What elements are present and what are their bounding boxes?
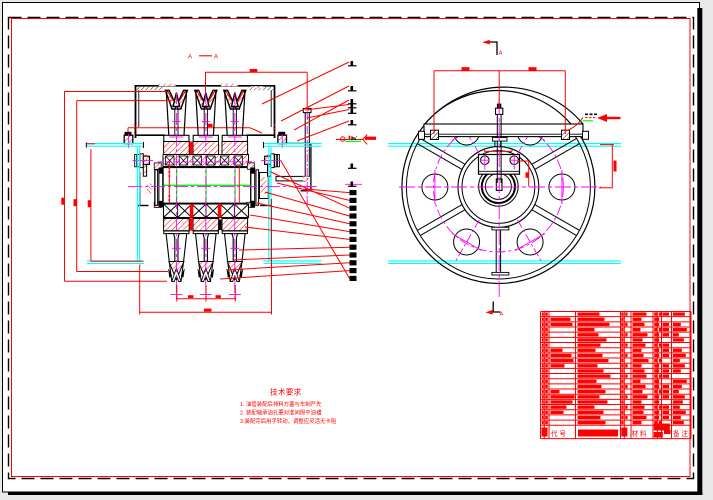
part label block 7 bbox=[350, 237, 357, 242]
sheave 2 lower edge L bbox=[199, 262, 202, 282]
plate bolt right bbox=[562, 130, 570, 139]
lower bearing row bbox=[164, 204, 249, 218]
right end seal top bbox=[251, 168, 255, 174]
svg-text:1. 油管装配后排料方塞与车制严先: 1. 油管装配后排料方塞与车制严先 bbox=[240, 400, 322, 408]
oil pipe elbow hatch bbox=[303, 176, 309, 181]
wheel bolt holes bbox=[422, 119, 575, 255]
part label block 5 bbox=[350, 221, 357, 226]
bolt mid-right head bbox=[265, 156, 271, 164]
wheel top dim text R bbox=[529, 67, 537, 70]
bolt mid-left stem bbox=[143, 164, 146, 176]
lower hub block 2 bbox=[193, 219, 219, 231]
sheave 3 lower tick bbox=[230, 247, 239, 249]
bottom dim 2 ext left bbox=[139, 265, 141, 315]
lower hub red bar bbox=[189, 219, 193, 231]
sheave 1 lower foot bbox=[164, 231, 189, 234]
right support wall foot bbox=[260, 205, 271, 207]
sheave 2 arm red streak R bbox=[209, 91, 215, 101]
bracket red top line bbox=[485, 150, 513, 152]
bottom beam cyan flange bbox=[87, 260, 144, 262]
casing wall red hatch R bbox=[274, 124, 276, 135]
leader line lower 5 bbox=[257, 203, 350, 224]
left bearing cover hatch bot bbox=[154, 202, 162, 207]
left dim line 1 bottom leader bbox=[65, 280, 168, 282]
svg-text:3.装配完后用手转动，调整应灵活无卡阻: 3.装配完后用手转动，调整应灵活无卡阻 bbox=[240, 417, 337, 425]
oil pipe vertical bbox=[305, 113, 309, 177]
sheave 2 lower tick bbox=[201, 247, 210, 249]
part label block 1 bbox=[350, 190, 357, 195]
pipe support foot bbox=[301, 190, 312, 192]
bottom dim 1 text a bbox=[188, 295, 193, 298]
section arrow red bbox=[487, 311, 492, 314]
leader line upper 5 bbox=[307, 110, 349, 119]
svg-text:材 料: 材 料 bbox=[632, 429, 647, 438]
top beam cyan flange bbox=[86, 143, 144, 145]
part label block 3 bbox=[350, 206, 357, 211]
bolt mid-left head bbox=[143, 156, 149, 164]
marker tail bbox=[606, 117, 621, 119]
sheave 2 upper groove left arm bbox=[195, 90, 205, 109]
leader line upper 1 bbox=[262, 62, 349, 104]
part label block 11 bbox=[350, 268, 357, 273]
bracket bolt left bbox=[481, 156, 490, 165]
sheave 1 lower edge L bbox=[169, 262, 172, 282]
shaft circle outer bbox=[479, 167, 519, 207]
sheave 2 web left bbox=[203, 109, 205, 136]
wheel horizontal centerline bbox=[399, 186, 601, 188]
sheave 1 body right side bbox=[184, 92, 187, 135]
drum red line right bbox=[238, 165, 240, 204]
part label block 10 bbox=[350, 260, 357, 265]
sheave 3 lower edge R bbox=[239, 262, 242, 282]
left support wall b bbox=[154, 170, 156, 206]
bracket box bbox=[479, 155, 520, 175]
leader line lower 8 bbox=[239, 247, 350, 250]
upper bearing X boxes bbox=[166, 156, 243, 165]
mount plate foot left bbox=[419, 131, 425, 139]
weld symbol open arrow bbox=[363, 135, 367, 140]
sheave 3 lower edge L bbox=[228, 262, 231, 282]
left end seal bottom bbox=[159, 201, 163, 207]
top beam cyan flange bbox=[388, 143, 621, 145]
drum green axis bbox=[164, 184, 251, 186]
wheel vertical centerline bbox=[498, 99, 500, 298]
bottom dim 2 line bbox=[140, 311, 272, 313]
lower bearing red bar 2 bbox=[218, 204, 222, 218]
part label block 6 bbox=[350, 229, 357, 234]
left support wall foot bbox=[138, 205, 149, 207]
bottom dim 2 ext right bbox=[271, 199, 273, 315]
wheel top dim ext mid bbox=[498, 71, 500, 107]
sheave 3 upper groove right arm bbox=[236, 90, 246, 109]
upper hub block 2 bbox=[193, 142, 219, 155]
stem head bbox=[496, 108, 503, 114]
bottom beam cyan flange bbox=[264, 260, 322, 262]
bolt mid-left washer bbox=[140, 154, 143, 168]
weld symbol line bbox=[336, 139, 363, 141]
sheave 3 web left bbox=[232, 109, 234, 136]
svg-text:代 号: 代 号 bbox=[551, 429, 566, 438]
bolt mid-right red top bbox=[267, 155, 271, 157]
casing right wall inner bbox=[270, 87, 272, 127]
bolt circle magenta bbox=[433, 122, 563, 252]
sheave 3 foot bbox=[222, 135, 247, 141]
sheave 2 lower notch bbox=[201, 268, 210, 282]
bolt mid-left red top bbox=[143, 155, 147, 157]
hood white cover bbox=[419, 81, 589, 124]
stem top cap bbox=[497, 104, 501, 108]
casing top hatch bbox=[248, 87, 273, 90]
svg-text:技术要求: 技术要求 bbox=[270, 387, 302, 397]
wheel spoke top stub bbox=[494, 140, 496, 148]
sheave 3 arm tip black L bbox=[224, 90, 226, 93]
sheave 3 lower prong left bbox=[225, 234, 234, 262]
bolt upper-left magenta tick bbox=[127, 134, 129, 148]
sheave 1 web right bbox=[177, 109, 179, 136]
drum body bbox=[163, 167, 251, 203]
drum red zigzag left bbox=[168, 162, 170, 207]
sheave 1 tick y137 bbox=[169, 136, 183, 138]
part label block 9 bbox=[350, 252, 357, 257]
part label tag 2 bbox=[351, 86, 354, 91]
leader line upper 2 bbox=[281, 86, 349, 121]
casing top hatch bbox=[137, 87, 163, 90]
right bearing cover hatch bot bbox=[247, 202, 255, 207]
upper bearing centerline bbox=[158, 161, 255, 163]
marker leader bbox=[565, 118, 583, 132]
left dim line 3 top tick bbox=[87, 143, 96, 145]
casing right wall bbox=[274, 86, 276, 139]
right dim vertical bbox=[611, 145, 613, 189]
beam end tick left2 bbox=[85, 143, 87, 148]
dim A top line bbox=[205, 71, 307, 73]
sheave 1 arm tip black R bbox=[185, 90, 187, 93]
sheave 3 upper groove left arm bbox=[224, 90, 234, 109]
page drop shadow bottom bbox=[8, 492, 703, 495]
left dim line 1 top leader bbox=[65, 91, 168, 93]
oil pipe elbow bbox=[276, 176, 305, 181]
marker green line bbox=[583, 120, 593, 122]
wheel top dim text L bbox=[462, 67, 470, 70]
right end cap outer bbox=[260, 173, 269, 199]
sheave 1 arm red streak R bbox=[179, 91, 185, 101]
left bearing cover hatch top bbox=[154, 163, 161, 169]
sheave 1 lower notch bbox=[172, 268, 181, 282]
shaft circle heavy bbox=[482, 170, 515, 203]
leader line lower 2 bbox=[277, 183, 350, 200]
part label block 2 bbox=[350, 198, 357, 203]
dim A ext left bbox=[205, 72, 207, 92]
leader line lower 1 bbox=[305, 189, 350, 193]
sheave 2 upper groove mid peak bbox=[203, 93, 210, 107]
lower bearing red bar 1 bbox=[190, 204, 194, 218]
sheave 1 arm red streak L bbox=[167, 91, 173, 101]
sheave 2 upper groove right arm bbox=[207, 90, 217, 109]
bracket dim text bbox=[526, 172, 529, 178]
red dim text in view bbox=[208, 124, 213, 127]
bolt upper-right cap bbox=[278, 132, 285, 135]
marker arrow bbox=[599, 115, 607, 121]
bolt mid-right washer bbox=[271, 154, 274, 168]
sheave 1 groove tick bbox=[172, 121, 180, 123]
bolt upper-left body bbox=[124, 135, 133, 143]
part label tag 4 bbox=[351, 103, 354, 108]
svg-text:A: A bbox=[500, 312, 504, 318]
pipe support vertical bbox=[310, 143, 312, 190]
sheave 3 lower tip black R bbox=[239, 269, 242, 278]
sheave 3 arm red streak L bbox=[226, 91, 232, 101]
sheave 3 upper groove mid peak bbox=[232, 93, 239, 107]
dim A ext right (long) bbox=[306, 72, 308, 108]
leader line lower 10 bbox=[227, 263, 350, 270]
leader line upper 4 bbox=[305, 105, 349, 111]
sheave 2 tick y295 bbox=[200, 294, 212, 296]
part label block 12 bbox=[350, 276, 357, 281]
right bearing cover hatch top bbox=[247, 163, 254, 169]
centerline pipe segment bbox=[296, 185, 317, 187]
sheave 1 vertical centerline bbox=[175, 92, 177, 299]
sheave 1 tick y295 bbox=[170, 294, 182, 296]
sheave 2 body left side bbox=[196, 92, 199, 135]
section mark top bbox=[489, 42, 497, 55]
weld symbol solid bar bbox=[365, 137, 376, 140]
sheave 1 upper groove mid peak bbox=[173, 93, 180, 107]
mount plate bbox=[424, 124, 583, 137]
weld symbol green underline bbox=[345, 140, 361, 142]
bolt upper-right body bbox=[278, 135, 287, 143]
upper hub block 3 bbox=[222, 142, 248, 155]
left dim line 2 top leader bbox=[77, 100, 171, 102]
leader line lower 9 bbox=[233, 255, 350, 260]
bottom dim 1 line bbox=[177, 298, 236, 300]
casing top red hatch c bbox=[251, 86, 263, 88]
drum red hatch left low bbox=[147, 184, 152, 194]
left dim 1 text bbox=[61, 198, 64, 205]
pipe support top bbox=[282, 142, 310, 144]
casing red leader tail bbox=[250, 128, 262, 133]
right support wall a bbox=[268, 172, 270, 206]
shaft circle inner bbox=[485, 173, 511, 199]
left dim line 2 bottom leader bbox=[77, 271, 168, 273]
sheave 1 lower prong right bbox=[178, 234, 187, 262]
sheave 1 upper groove right arm bbox=[177, 90, 187, 109]
weld symbol red tick bbox=[349, 136, 351, 140]
bolt mid-right plate 1 bbox=[277, 155, 279, 167]
main horizontal centerline bbox=[128, 185, 292, 187]
sheave 3 tick y137 bbox=[228, 136, 242, 138]
casing left wall inner bbox=[138, 87, 140, 127]
mount plate foot right bbox=[583, 131, 589, 139]
bolt upper-left cap bbox=[125, 132, 132, 135]
wheel spokes diagonal bbox=[417, 138, 579, 235]
beam end tick right bbox=[263, 142, 265, 148]
sheave 2 lower prong left bbox=[196, 234, 205, 262]
svg-text:2. 装配轴承油孔要对准间隙平油槽: 2. 装配轴承油孔要对准间隙平油槽 bbox=[240, 409, 322, 417]
wheel spoke bottom bbox=[495, 230, 497, 273]
weld symbol circle bbox=[341, 137, 345, 141]
right end red hatch bbox=[261, 177, 267, 194]
casing flange left bbox=[137, 134, 166, 136]
hole centre ticks bbox=[435, 111, 562, 263]
spoke bottom flange bot bbox=[492, 272, 509, 275]
right end seal bottom bbox=[251, 201, 255, 207]
stem washer at plate bbox=[492, 138, 507, 142]
bolt mid-right axis bbox=[261, 159, 282, 161]
BOM filled cells bbox=[542, 312, 687, 424]
bolt mid-left plate 2 bbox=[137, 155, 139, 167]
sheave 1 arm tip black L bbox=[165, 90, 167, 93]
hub inner circle bbox=[462, 151, 535, 224]
weld symbol black glyph bbox=[351, 136, 353, 140]
part label tag 8 bbox=[351, 182, 354, 187]
sheave 1 upper groove left arm bbox=[165, 90, 175, 109]
sheave 2 tick y137 bbox=[199, 136, 213, 138]
part label block 4 bbox=[350, 213, 357, 218]
bottom beam cyan flange bbox=[388, 260, 621, 262]
hub outer circle bbox=[458, 147, 539, 228]
left end ring outer bbox=[155, 170, 158, 206]
bottom dim 1 text b bbox=[216, 295, 221, 298]
svg-text:A: A bbox=[188, 54, 192, 60]
bottom dim 1 ext c bbox=[234, 285, 236, 302]
bracket dim tick bbox=[517, 160, 528, 162]
casing left wall bbox=[135, 86, 137, 139]
lower hub black bar bbox=[219, 220, 222, 231]
pipe magenta vertical bbox=[306, 112, 308, 204]
svg-text:A: A bbox=[214, 54, 218, 60]
marker black dashes bbox=[585, 113, 598, 115]
sheave 2 groove tick bbox=[202, 121, 210, 123]
drum green divider 3 bbox=[234, 168, 236, 202]
casing top red hatch a bbox=[159, 84, 176, 87]
sheave 3 lower foot bbox=[222, 231, 247, 234]
part label tag 1 bbox=[351, 61, 354, 66]
left dim 3 text bbox=[88, 200, 91, 207]
right end ring inner bbox=[251, 168, 255, 207]
sheave 1 web left bbox=[174, 109, 176, 136]
left end ring inner bbox=[159, 168, 163, 207]
BOM table grid bbox=[541, 312, 692, 439]
bottom dim 1 ext a bbox=[176, 285, 178, 302]
sheave 2 arm red streak L bbox=[197, 91, 203, 101]
bolt mid-left plate 1 bbox=[135, 155, 137, 167]
left support cyan web bbox=[136, 147, 138, 262]
sheave 3 arm tip black R bbox=[243, 90, 245, 93]
sheave 2 vertical centerline bbox=[205, 92, 207, 299]
bracket divider bbox=[479, 170, 520, 172]
svg-text:备 注: 备 注 bbox=[673, 429, 688, 438]
casing flange right bbox=[247, 134, 275, 136]
upper bearing row bbox=[163, 155, 249, 167]
sheave 3 lower tip black L bbox=[227, 269, 230, 278]
oil pipe fitting top bbox=[303, 108, 311, 112]
right dim tick top bbox=[600, 144, 614, 146]
leader line upper 3 bbox=[294, 100, 349, 130]
plate bolt left bbox=[431, 130, 439, 139]
sheave 1 lower prong left bbox=[166, 234, 175, 262]
top beam cyan flange bbox=[264, 143, 322, 145]
part label tag 5 bbox=[351, 109, 354, 114]
sheave 1 foot bbox=[164, 135, 189, 141]
sheave 2 lower tip black L bbox=[198, 269, 201, 278]
sheave 1 body left side bbox=[166, 92, 169, 135]
sheave 2 arm tip black L bbox=[195, 90, 197, 93]
bolt mid-right plate 2 bbox=[275, 155, 277, 167]
sheave 3 vertical centerline bbox=[234, 92, 236, 299]
beam end tick left bbox=[143, 142, 145, 148]
sheave 3 web right bbox=[235, 109, 237, 136]
sheave 2 lower tip black R bbox=[210, 269, 213, 278]
leader line lower 12 bbox=[281, 161, 350, 278]
right end ring outer bbox=[256, 170, 259, 206]
section arrow red top bbox=[484, 41, 489, 44]
bolt mid-right stem bbox=[268, 164, 271, 176]
left dim 2 text bbox=[74, 199, 77, 206]
wheel top dim line bbox=[434, 70, 565, 72]
sheave 1 lower tip black R bbox=[181, 269, 184, 278]
right support cyan web bbox=[268, 147, 270, 262]
left dim line 3 vertical bbox=[90, 149, 92, 261]
sheave 3 lower notch bbox=[230, 268, 239, 282]
upper hub red bar bbox=[189, 142, 193, 155]
right dim text bbox=[614, 161, 617, 172]
part label block 8 bbox=[350, 245, 357, 250]
leader line upper 6 bbox=[297, 121, 349, 141]
leader line lower 6 bbox=[250, 215, 350, 232]
bracket dim vertical bbox=[528, 161, 530, 187]
bottom dim 2 text bbox=[204, 309, 212, 312]
sheave 1 lower chevron bbox=[169, 262, 184, 280]
left dim line 1 vertical bbox=[64, 92, 66, 282]
drum green divider 1 bbox=[176, 168, 178, 202]
wheel rim inner circle bbox=[406, 95, 590, 279]
part label tag 3 bbox=[351, 99, 354, 104]
bolt mid-left axis bbox=[133, 159, 154, 161]
bolt upper-right magenta tick bbox=[281, 134, 283, 148]
leader line lower 3 bbox=[271, 172, 350, 208]
page drop shadow right bbox=[697, 8, 702, 495]
sheave 2 foot bbox=[193, 135, 218, 141]
marker red dashes bbox=[585, 117, 597, 119]
part label tag 6 bbox=[351, 120, 354, 125]
upper hub block 1 bbox=[164, 142, 190, 155]
wheel top arc bbox=[425, 90, 571, 124]
sheave 2 arm tip black R bbox=[214, 90, 216, 93]
leader line lower 11 bbox=[220, 271, 350, 279]
sheave 3 lower prong right bbox=[236, 234, 245, 262]
sheave 2 web right bbox=[206, 109, 208, 136]
lower bearing X pattern bbox=[164, 204, 249, 218]
lower hub block 1 bbox=[164, 219, 190, 231]
sheave 3 body left side bbox=[225, 92, 228, 135]
casing top plate bbox=[135, 85, 276, 87]
sheave 3 tick y295 bbox=[229, 294, 241, 296]
section mark bottom bbox=[493, 302, 500, 313]
casing top red hatch b bbox=[221, 84, 238, 87]
bottom dim 1 ext b bbox=[205, 285, 207, 302]
bracket bolt right bbox=[510, 156, 519, 165]
lower hub block 3 bbox=[222, 219, 248, 231]
left dim line 2 vertical bbox=[76, 101, 78, 272]
sheave 2 body right side bbox=[213, 92, 216, 135]
drum green divider 2 bbox=[205, 168, 207, 202]
sheave 3 body right side bbox=[242, 92, 245, 135]
hood outer arc bbox=[425, 87, 583, 124]
svg-text:A: A bbox=[499, 51, 503, 57]
sheave 3 groove tick bbox=[231, 121, 239, 123]
spoke bottom flange top bbox=[492, 227, 509, 230]
mount plate inner line bbox=[424, 133, 583, 135]
